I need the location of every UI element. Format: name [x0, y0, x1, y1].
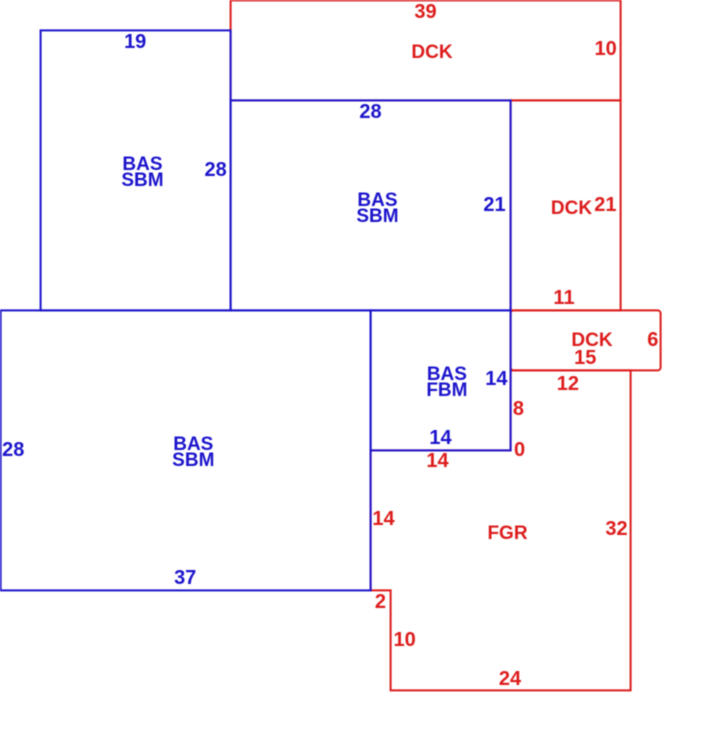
room BAS SBM middle outline	[231, 100, 511, 310]
dimension 28 right of upper-left room	[204, 162, 226, 178]
room BAS FBM outline	[371, 310, 511, 450]
dimension 21 right of middle room	[483, 197, 505, 213]
garage label FGR	[487, 526, 527, 542]
dimension 6 right of small deck	[647, 332, 658, 348]
dimension 14 left of garage	[372, 511, 394, 527]
dimension 32 right of garage	[605, 521, 627, 537]
dimension 10 garage notch left	[393, 632, 415, 648]
garage FGR outline	[371, 370, 631, 690]
room BAS SBM upper-left outline	[41, 30, 231, 310]
room label BAS SBM upper-left	[121, 157, 163, 189]
deck label DCK right	[551, 201, 592, 217]
deck label DCK small	[571, 333, 612, 349]
dimension 14 right of BAS FBM	[485, 371, 507, 387]
dimension 11 bottom of right deck	[553, 290, 574, 306]
dimension 37 bottom of large room	[174, 570, 196, 586]
deck label DCK top	[411, 45, 452, 61]
dimension 39 top of deck	[414, 4, 436, 20]
dimension 15 small deck	[574, 350, 596, 366]
dimension 2 garage notch	[375, 594, 386, 610]
dimension 14 top of garage	[426, 453, 448, 469]
dimension 28 top of middle room	[359, 104, 381, 120]
deck DCK small outline	[511, 310, 661, 370]
dimension 21 right deck	[594, 197, 616, 213]
room BAS SBM large outline	[1, 310, 371, 590]
room label BAS SBM middle	[356, 193, 398, 225]
deck DCK top outline	[231, 0, 621, 100]
dimension 28 left of large room	[2, 442, 24, 458]
dimension 12 below small deck	[557, 376, 579, 392]
dimension 19 top of upper-left room	[124, 34, 146, 50]
dimension 0 garage corner	[514, 442, 525, 458]
dimension 8 garage upper right	[513, 401, 524, 417]
room label BAS FBM	[426, 367, 467, 399]
deck DCK right outline	[511, 100, 621, 310]
room label BAS SBM large	[172, 437, 214, 469]
dimension 24 bottom of garage	[499, 671, 521, 687]
dimension 14 bottom of BAS FBM	[429, 430, 451, 446]
dimension 10 right of top deck	[594, 41, 616, 57]
